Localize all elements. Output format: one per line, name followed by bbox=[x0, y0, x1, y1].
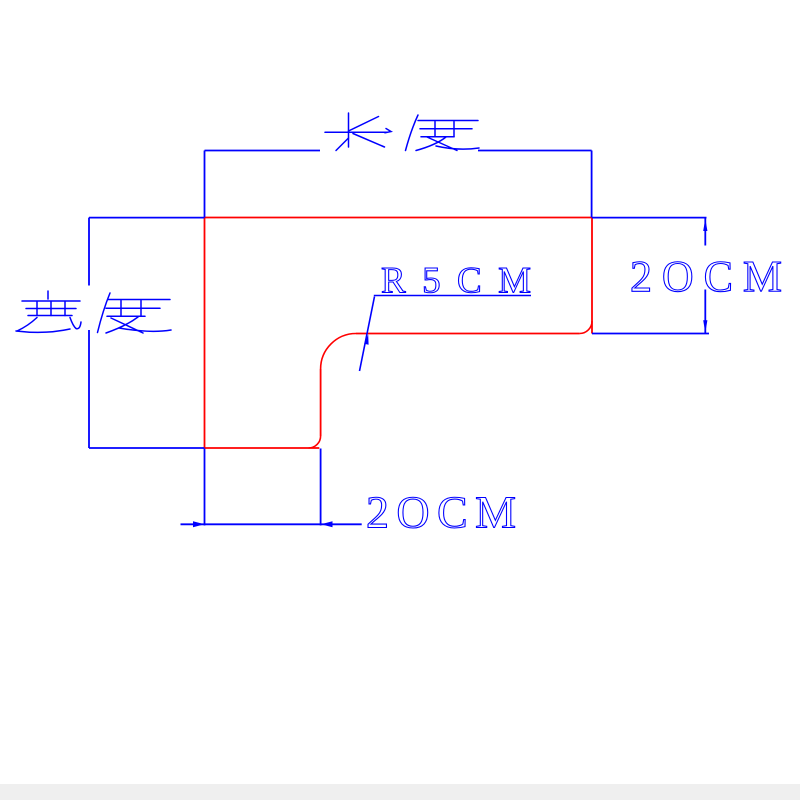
red fillet at bottom inner corner bbox=[309, 436, 321, 448]
left dimension line lower segment bbox=[88, 330, 90, 448]
red bottom edge (overshoot past fillet) bbox=[205, 447, 320, 449]
svg-text:2OCM: 2OCM bbox=[366, 487, 516, 538]
left dimension: top extension line bbox=[89, 217, 204, 219]
left dimension line upper segment bbox=[88, 218, 90, 286]
bottom dimension: right extension line bbox=[320, 449, 322, 526]
radius leader arrowhead bbox=[364, 335, 368, 345]
red inner vertical edge bbox=[320, 369, 322, 436]
right dimension arrow up bbox=[703, 219, 707, 232]
right dimension: bottom extension line bbox=[592, 333, 709, 335]
red fillet at right inner corner bbox=[580, 321, 592, 334]
bottom dimension left arrow bbox=[193, 521, 205, 527]
red R5 fillet arc bbox=[321, 334, 356, 370]
radius leader line bbox=[360, 297, 375, 372]
bottom dimension: left extension line bbox=[204, 449, 206, 526]
red part outline: right edge (untrimmed to inner corner) bbox=[591, 218, 593, 334]
red inner horizontal edge bbox=[356, 333, 580, 335]
red part outline: top edge bbox=[205, 217, 593, 219]
bottom dimension line bbox=[181, 523, 362, 525]
top dimension line right segment bbox=[478, 150, 592, 152]
right dimension arrow down bbox=[703, 320, 707, 333]
label 长 (length char 1) bbox=[325, 113, 391, 151]
right dimension line upper segment bbox=[704, 218, 706, 246]
bottom dimension right arrow bbox=[321, 521, 333, 527]
top dimension line left segment bbox=[205, 150, 321, 152]
red left edge bbox=[204, 218, 206, 449]
label 宽 (width char 1) bbox=[16, 291, 81, 332]
right dimension: top extension line bbox=[592, 217, 707, 219]
left dimension: bottom extension line bbox=[89, 447, 204, 449]
top dimension: left extension line bbox=[204, 151, 206, 218]
bottom gray bar bbox=[0, 784, 800, 800]
label 度 (width char 2) bbox=[98, 293, 172, 333]
top dimension: right extension line bbox=[591, 151, 593, 218]
right dimension line lower segment bbox=[704, 290, 706, 334]
radius label underline bbox=[374, 295, 531, 297]
label 度 (length char 2) bbox=[406, 115, 480, 151]
